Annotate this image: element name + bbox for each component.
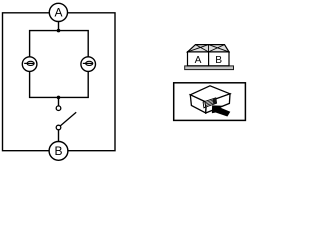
svg-text:A: A xyxy=(54,6,62,20)
wire top-left segment xyxy=(3,13,116,151)
ammeter A xyxy=(49,3,67,21)
svg-text:A: A xyxy=(195,55,202,66)
svg-text:B: B xyxy=(215,55,222,66)
node J1 junction dot xyxy=(57,29,61,33)
connector stripes xyxy=(205,99,216,105)
battery box right face xyxy=(206,94,230,113)
wire inner parallel rectangle top rail xyxy=(30,31,89,57)
lamp L2 xyxy=(81,57,96,72)
switch S1 top contact xyxy=(56,106,61,111)
battery holder top face slot X right xyxy=(209,45,230,52)
wire from ammeter to node J1 xyxy=(58,22,60,31)
node J2 junction dot xyxy=(57,96,61,100)
battery holder top face divider xyxy=(208,45,210,52)
connector block striped face xyxy=(205,98,217,107)
connector block left end xyxy=(203,101,206,107)
battery holder top face slot X left xyxy=(188,45,209,52)
meter B xyxy=(49,142,68,161)
battery holder front face cell A xyxy=(188,52,209,66)
battery holder front face cell B xyxy=(209,52,229,66)
arrow pointer xyxy=(212,105,230,116)
switch S1 bottom contact xyxy=(56,125,61,130)
wire node J2 to switch xyxy=(58,97,60,105)
connector dark end cap xyxy=(213,98,217,105)
switch S1 lever (open) xyxy=(60,112,76,126)
battery box top face xyxy=(190,86,230,103)
svg-text:B: B xyxy=(54,144,62,158)
lamp L1 xyxy=(22,57,37,72)
wire inner parallel rectangle bottom rail xyxy=(30,72,89,98)
wire switch to meter B xyxy=(58,130,60,142)
battery box left face xyxy=(190,95,206,113)
wire outer loop left/top/right/bottom xyxy=(3,13,116,151)
battery holder base strip xyxy=(185,66,234,70)
battery holder top face xyxy=(188,45,230,52)
photo frame xyxy=(174,83,246,121)
